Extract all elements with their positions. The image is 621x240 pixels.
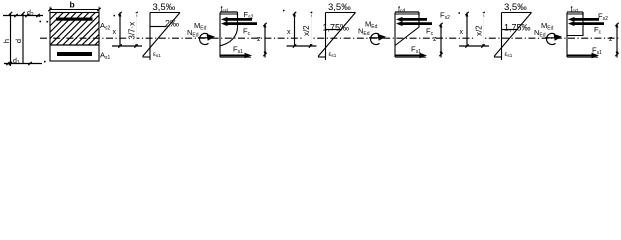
group 2: force arrow Fs1 xyxy=(395,53,427,58)
svg-text:z: z xyxy=(433,36,437,43)
svg-text:εs1: εs1 xyxy=(153,51,161,58)
group 2: force arrow Fc xyxy=(396,21,432,26)
group 3: dimension line with rotated label x/2 xyxy=(475,12,485,48)
group 1: strain bottom edge xyxy=(143,56,151,58)
group 3: strain level tick xyxy=(502,29,518,31)
group 2: strain level tick xyxy=(326,29,342,31)
group 3: lever arm dimension z xyxy=(609,23,619,58)
svg-text:εs1: εs1 xyxy=(329,51,337,58)
group 1: extension line at neutral axis xyxy=(112,45,142,47)
group 2: lever arm dimension z xyxy=(433,23,443,58)
svg-text:z: z xyxy=(257,36,261,43)
group 2: strain top edge (3,5 permille) xyxy=(326,12,356,14)
group 1: moment arc arrow xyxy=(199,33,208,44)
group 3: strain top edge (3,5 permille) xyxy=(502,12,532,14)
svg-text:3/7·x: 3/7·x xyxy=(128,22,137,40)
group 1: normal force arrow NEd xyxy=(198,37,209,39)
group 1: stress diagram face line xyxy=(219,13,221,58)
group 1: force arrow Fs2 xyxy=(221,17,252,22)
stray dots near section xyxy=(39,15,41,17)
group 1: strain diagram zero line xyxy=(149,13,151,61)
group 1: concrete stress distribution xyxy=(220,14,238,46)
group 3: stress diagram face line xyxy=(566,13,568,58)
bottom-left extension line with d1 mark xyxy=(4,58,42,66)
svg-text:3,5‰: 3,5‰ xyxy=(504,2,527,13)
dimension d (left) xyxy=(14,12,25,64)
top-left extension line with d2 mark xyxy=(3,10,43,18)
reinforcement bar As1 (bottom) xyxy=(57,52,92,56)
centre axis dash-dot line xyxy=(40,37,620,39)
group 2: stress diagram face line xyxy=(394,13,396,58)
group 2: strain diagram zero line xyxy=(325,13,327,61)
group 2: neutral-axis depth dimension x xyxy=(287,12,296,48)
group 2: moment arc arrow xyxy=(370,33,379,44)
svg-text:3,5‰: 3,5‰ xyxy=(328,2,351,13)
group 2: concrete stress distribution xyxy=(395,14,419,46)
svg-text:fcd: fcd xyxy=(571,6,578,14)
group 3: concrete stress distribution xyxy=(567,14,583,36)
group 3: strain bottom edge xyxy=(494,56,502,58)
svg-text:fcd: fcd xyxy=(398,6,405,14)
group 1: strain diagonal xyxy=(143,13,181,57)
group 2: strain diagonal xyxy=(318,13,356,57)
svg-text:z: z xyxy=(609,36,613,43)
group 3: neutral-axis depth dimension x xyxy=(460,12,469,48)
group 1: dimension line with rotated label 3/7&#183;x xyxy=(128,12,138,48)
group 3: fcd dimension bracket xyxy=(567,12,583,16)
group 3: force arrow Fs2 xyxy=(568,17,599,22)
group 3: strain diagram zero line xyxy=(501,13,503,61)
group 1: force arrow Fs1 xyxy=(220,53,252,58)
group 3: force arrow Fs1 xyxy=(567,53,599,58)
group 3: normal force arrow NEd xyxy=(545,37,556,39)
group 2: normal force arrow NEd xyxy=(369,37,380,39)
beam cross-section: dimension b xyxy=(48,0,100,13)
svg-text:x: x xyxy=(113,29,117,36)
svg-text:d1: d1 xyxy=(13,58,20,66)
section outline with compression-zone hatching xyxy=(0,13,153,62)
group 1: strain top edge (3,5 permille) xyxy=(150,12,180,14)
group 2: strain bottom edge xyxy=(318,56,326,58)
group 1: neutral-axis depth dimension x xyxy=(113,12,122,48)
group 2: fcd dimension bracket xyxy=(395,12,419,16)
svg-text:h: h xyxy=(2,39,11,43)
svg-text:x: x xyxy=(287,29,291,36)
svg-text:εs1: εs1 xyxy=(505,51,513,58)
svg-text:2‰: 2‰ xyxy=(165,19,179,29)
svg-text:x/2: x/2 xyxy=(475,25,484,36)
group 3: force arrow Fc xyxy=(568,21,604,26)
svg-text:1,75‰: 1,75‰ xyxy=(323,22,350,32)
group 1: fcd dimension bracket xyxy=(220,12,238,16)
svg-text:x: x xyxy=(460,29,464,36)
group 3: extension line at neutral axis xyxy=(459,45,489,47)
group 2: extension line at neutral axis xyxy=(287,45,317,47)
group 3: moment arc arrow xyxy=(546,33,555,44)
group 2: force arrow Fs2 xyxy=(396,17,427,22)
svg-text:x/2: x/2 xyxy=(302,25,311,36)
group 1: force arrow Fc xyxy=(221,21,257,26)
group 2: dimension line with rotated label x/2 xyxy=(302,12,312,48)
svg-text:fcd: fcd xyxy=(221,6,228,14)
reinforcement bar As2 (top) xyxy=(56,18,93,21)
svg-text:d: d xyxy=(14,39,23,43)
svg-text:b: b xyxy=(70,0,75,10)
svg-text:3,5‰: 3,5‰ xyxy=(153,2,176,13)
group 3: strain diagonal xyxy=(494,13,532,57)
svg-text:1,75‰: 1,75‰ xyxy=(504,22,531,32)
group 1: strain level tick xyxy=(150,26,166,28)
dimension h (left) xyxy=(2,12,12,66)
group 1: lever arm dimension z xyxy=(257,23,267,58)
